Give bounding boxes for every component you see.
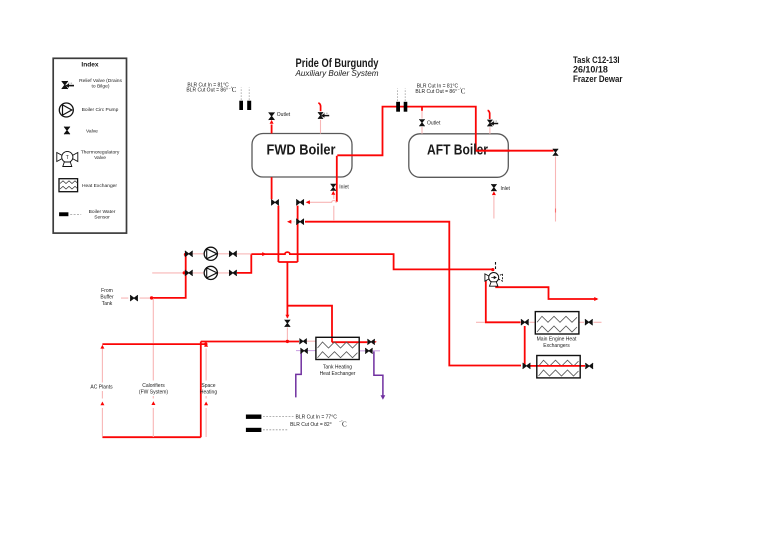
valve pump lower left bbox=[185, 270, 193, 276]
arrow right on main flow line bbox=[262, 252, 266, 256]
svg-text:Index: Index bbox=[81, 62, 99, 69]
svg-text:Valve: Valve bbox=[86, 128, 98, 134]
svg-text:Tank: Tank bbox=[102, 301, 113, 307]
wire: FWD right inner drop to inlet valve network bbox=[336, 156, 338, 202]
svg-text:C: C bbox=[461, 88, 466, 96]
svg-text:FWD Boiler: FWD Boiler bbox=[267, 142, 336, 159]
arrow up calorifiers bbox=[151, 401, 155, 405]
svg-text:(FW System): (FW System) bbox=[139, 390, 168, 396]
heat exchanger tank heating bbox=[316, 337, 359, 359]
wire: AC plants header bbox=[102, 343, 204, 345]
svg-text:Heat Exchanger: Heat Exchanger bbox=[320, 371, 356, 377]
svg-text:Outlet: Outlet bbox=[277, 112, 291, 118]
wire: purple right tank HX return bbox=[374, 352, 383, 397]
svg-text:Frazer Dewar: Frazer Dewar bbox=[573, 73, 623, 84]
arrow up space heating bbox=[204, 402, 208, 406]
junction dot tank riser base bbox=[286, 340, 289, 343]
valve tank HX left bottom bbox=[300, 348, 307, 354]
wire: thermo valve bottom out to right arrow bbox=[495, 287, 597, 299]
sensor bottom pair bbox=[246, 415, 262, 419]
arrow left at V3 tail bbox=[287, 220, 291, 224]
wire: FWD drain down to valve V1 bbox=[271, 177, 273, 199]
valve V1 FWD drain bbox=[271, 199, 279, 205]
valve AFT inlet bbox=[491, 184, 496, 191]
valve tank riser bbox=[285, 320, 291, 327]
wire: V2 to inlet junction bbox=[309, 201, 337, 203]
svg-text:C: C bbox=[232, 86, 237, 94]
junction dot lower pump suction bbox=[183, 271, 186, 274]
wire: U center drop bbox=[286, 262, 288, 318]
wire: red line through lower main engine HX bbox=[530, 365, 585, 367]
arrow up into FWD inlet valve bbox=[331, 191, 335, 195]
wire: lower pump row bbox=[186, 272, 237, 274]
valve pump upper left bbox=[185, 251, 193, 257]
wire: V2 down right leg of U bbox=[297, 206, 299, 262]
wire: buffer tank to pump suction header bbox=[152, 254, 186, 298]
wire: FWD outlet stub bbox=[271, 125, 273, 134]
svg-text:BLR Cut Out = 82°: BLR Cut Out = 82° bbox=[290, 422, 332, 428]
sensor FWD pair bbox=[239, 101, 243, 110]
wire: AFT side valve drop bbox=[555, 157, 557, 222]
valve pump lower right bbox=[229, 270, 237, 276]
light pink thin pipes bbox=[102, 111, 601, 438]
wire: buffer tank valve stubs bbox=[121, 297, 150, 299]
arrow right at discharge end bbox=[594, 297, 598, 301]
wire: tank HX upper left stub bbox=[306, 340, 316, 342]
wire: upper pump row bbox=[186, 253, 237, 255]
valve HX2 right bbox=[585, 363, 593, 369]
wire: AFT outlet header tick bbox=[421, 107, 423, 111]
wire: calorifiers drop lower bbox=[152, 345, 154, 437]
valve FWD outlet bbox=[269, 112, 275, 120]
relief valve FWD red hook bbox=[318, 103, 320, 111]
svg-text:Exchangers: Exchangers bbox=[543, 343, 570, 349]
valve AFT outlet bbox=[419, 119, 424, 126]
svg-text:C: C bbox=[342, 420, 347, 428]
svg-text:Outlet: Outlet bbox=[427, 121, 441, 127]
svg-text:to Bilge): to Bilge) bbox=[92, 83, 110, 89]
svg-text:Heat Exchanger: Heat Exchanger bbox=[82, 183, 117, 189]
wire: AFT drop tick bbox=[555, 209, 557, 213]
wire: AC plants lower drop bbox=[101, 408, 103, 437]
svg-text:Space: Space bbox=[201, 383, 215, 389]
legend boiler water sensor icon bbox=[59, 212, 81, 216]
svg-text:Inlet: Inlet bbox=[501, 186, 511, 192]
legend valve icon bbox=[64, 127, 70, 135]
svg-text:Boiler Water: Boiler Water bbox=[89, 209, 116, 215]
AFT boiler vessel bbox=[409, 134, 509, 178]
valve FWD relief bbox=[318, 112, 323, 119]
valve HX1 right bbox=[585, 319, 593, 325]
wire: AFT through line overlay bbox=[476, 150, 510, 152]
wire: AC plants drop bbox=[101, 347, 103, 399]
wire: HX1 stubs bbox=[476, 321, 602, 323]
svg-text:Buffer: Buffer bbox=[100, 295, 114, 301]
arrow up space heating top bbox=[204, 343, 208, 347]
wire: main flow line from pumps to thermo valve bbox=[251, 252, 492, 269]
wire: space heating drop bbox=[205, 349, 207, 438]
valve tank HX right top bbox=[367, 339, 374, 345]
legend thermoregulatory valve icon bbox=[57, 151, 78, 166]
task info block bbox=[573, 54, 623, 84]
relief valve FWD arm bbox=[321, 113, 330, 118]
wire: tank HX lower right lavender stub bbox=[359, 350, 380, 352]
wire: FWD right side to AFT top header bbox=[337, 107, 553, 156]
wire: lower pump discharge riser bbox=[237, 254, 251, 273]
arrow right after tank HX bbox=[373, 340, 377, 344]
wire: AFT inlet stub lower bbox=[493, 196, 495, 219]
svg-text:AC Plants: AC Plants bbox=[90, 385, 113, 391]
wire: FWD inlet feed riser bbox=[333, 195, 335, 222]
svg-text:Valve: Valve bbox=[94, 155, 106, 161]
wire: FWD relief stub bbox=[320, 120, 322, 134]
arrow up AC plants top bbox=[100, 345, 104, 349]
wire: bottom return line bbox=[102, 436, 200, 438]
wire: HX1 left valve down to HX2 left valve bbox=[524, 326, 526, 366]
title: Pride Of Burgundy bbox=[295, 56, 379, 78]
legend relief valve icon bbox=[62, 81, 74, 89]
wire: lower pump row suction bbox=[152, 272, 185, 274]
wire: arrow feed upper row bbox=[237, 253, 252, 255]
wire: tank heating HX flow line bbox=[332, 341, 367, 343]
svg-text:BLR Cut In = 77°C: BLR Cut In = 77°C bbox=[296, 415, 338, 421]
pump lower boiler circ bbox=[204, 266, 217, 279]
sensor AFT pair bbox=[396, 102, 400, 112]
junction dot buffer tank bbox=[150, 296, 153, 299]
valve AFT relief bbox=[487, 120, 492, 127]
svg-text:Heating: Heating bbox=[200, 390, 217, 396]
wire: bottom utility header bbox=[201, 341, 299, 343]
valve V2 boiler feed cross bbox=[296, 199, 304, 205]
svg-text:Auxiliary Boiler System: Auxiliary Boiler System bbox=[295, 68, 379, 78]
svg-text:Main Engine Heat: Main Engine Heat bbox=[537, 337, 577, 343]
index box frame bbox=[53, 58, 126, 233]
junction dot header end bbox=[204, 342, 207, 345]
purple arrow down bbox=[381, 395, 386, 400]
legend pump icon bbox=[59, 103, 73, 117]
valve V3 return line bbox=[296, 219, 304, 225]
valve HX2 left bbox=[523, 363, 531, 369]
valve FWD inlet bbox=[331, 184, 336, 191]
wire: U bottom bbox=[278, 261, 297, 263]
wire: tank HX lower left lavender stub bbox=[296, 350, 316, 352]
wire: AFT outlet stub bbox=[421, 111, 423, 134]
valve tank HX right bottom bbox=[365, 348, 372, 354]
wire: thermo valve left wing down to HX1 row bbox=[486, 280, 521, 322]
wire: V1 down left leg of U bbox=[277, 206, 279, 262]
valve buffer tank bbox=[130, 295, 138, 301]
heat exchanger HX2 main engine lower bbox=[537, 356, 580, 378]
wire: space heating riser bbox=[200, 342, 202, 438]
svg-text:BLR Cut Out = 86°: BLR Cut Out = 86° bbox=[415, 89, 457, 95]
FWD boiler vessel bbox=[252, 134, 352, 178]
wire: branch right to tank HX feed bbox=[287, 306, 332, 343]
wire: HX2 through line overlay bbox=[538, 365, 580, 367]
heat exchanger HX1 main engine upper bbox=[535, 312, 579, 334]
svg-text:Tank Heating: Tank Heating bbox=[323, 365, 352, 371]
wire: tank HX valve drop bbox=[286, 328, 288, 341]
relief valve AFT arm bbox=[490, 121, 498, 126]
valve tank HX left top bbox=[299, 338, 306, 344]
wire: AFT relief stub bbox=[489, 127, 491, 134]
wire: return line from right at boiler drain level bbox=[305, 222, 521, 366]
wire: V3 tail dashes bbox=[290, 221, 295, 223]
arrow down into tank riser valve bbox=[285, 315, 289, 319]
svg-text:Boiler Circ Pump: Boiler Circ Pump bbox=[82, 107, 119, 113]
pump upper boiler circ bbox=[204, 247, 217, 260]
svg-text:Sensor: Sensor bbox=[94, 214, 110, 220]
valve pump upper right bbox=[229, 251, 237, 257]
svg-text:From: From bbox=[101, 288, 113, 294]
valve HX1 left bbox=[521, 319, 529, 325]
junction dot thermo valve inlet bbox=[491, 268, 494, 271]
arrow up into AFT inlet valve bbox=[492, 191, 496, 195]
svg-text:T: T bbox=[66, 155, 69, 161]
svg-text:Relief Valve (Drains: Relief Valve (Drains bbox=[79, 78, 122, 84]
arrow up AC plants bbox=[100, 402, 104, 406]
svg-text:Inlet: Inlet bbox=[339, 184, 349, 190]
relief valve AFT red hook bbox=[488, 110, 490, 119]
svg-text:BLR Cut Out = 86°: BLR Cut Out = 86° bbox=[186, 88, 228, 94]
arrow up into FWD outlet valve bbox=[270, 120, 274, 124]
wire: purple left tank HX return bbox=[296, 351, 301, 397]
arrow left into V2 bbox=[306, 200, 310, 204]
legend heat exchanger icon bbox=[59, 179, 78, 192]
wire: calorifiers drop from buffer junction bbox=[152, 298, 154, 343]
junction dot upper pump suction bbox=[184, 253, 187, 256]
svg-text:Calorifiers: Calorifiers bbox=[142, 383, 165, 389]
valve AFT side discharge bbox=[553, 149, 558, 156]
svg-text:Thermoregulatory: Thermoregulatory bbox=[81, 150, 120, 156]
